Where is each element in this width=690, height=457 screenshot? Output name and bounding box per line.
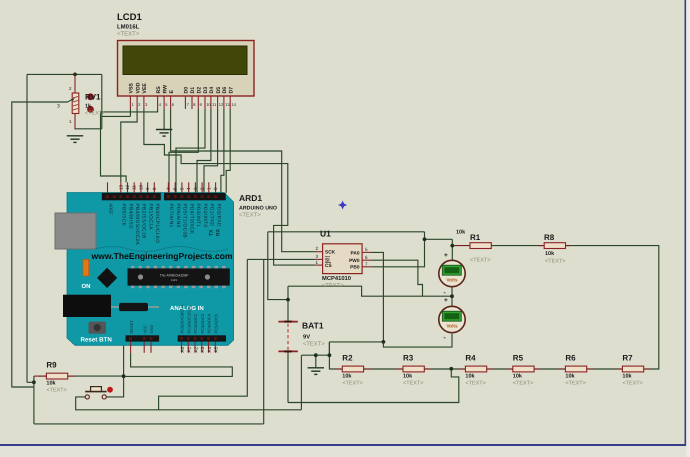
- svg-text:R9: R9: [46, 361, 57, 370]
- window border right (navy): [684, 0, 686, 446]
- wire R3 to R4: [423, 368, 465, 370]
- Arduino USB connector: [55, 213, 96, 249]
- wire LCD D6 to Arduino header: [221, 109, 224, 193]
- svg-text:VDD: VDD: [135, 82, 141, 93]
- wire bottom rail 2: [34, 423, 264, 425]
- svg-text:D1: D1: [190, 87, 196, 94]
- Arduino silkscreen bracket: [95, 247, 228, 252]
- LCD1 body: [118, 41, 255, 97]
- svg-text:1121: 1121: [171, 278, 178, 282]
- svg-text:10k: 10k: [545, 251, 555, 257]
- svg-text:11: 11: [132, 185, 137, 190]
- svg-text:PB1/OC1A: PB1/OC1A: [147, 204, 153, 231]
- wire LCD RS to Arduino pin 12: [101, 109, 158, 182]
- svg-text:<TEXT>: <TEXT>: [465, 380, 485, 386]
- LCD1 pin stubs: [130, 96, 230, 109]
- svg-text:RS: RS: [156, 86, 162, 94]
- svg-text:3: 3: [57, 104, 60, 110]
- svg-text:R3: R3: [403, 353, 414, 362]
- svg-text:<TEXT>: <TEXT>: [565, 380, 585, 386]
- wire GND top rail horizontal: [27, 73, 102, 75]
- wire down to voltmeter VM1 top: [451, 239, 453, 260]
- wire VSS riser vertical: [101, 74, 103, 128]
- RV1 wiper arrow: [68, 98, 75, 102]
- junction PB0 node: [423, 237, 427, 241]
- svg-text:10k: 10k: [403, 374, 413, 380]
- wire LCD D7 to Arduino header: [226, 109, 230, 193]
- U1 pin numbers: [316, 246, 369, 266]
- junction PA0 node: [382, 340, 386, 344]
- wire left GND rail vertical: [26, 74, 28, 382]
- svg-text:9V: 9V: [303, 334, 310, 341]
- svg-text:<TEXT>: <TEXT>: [85, 111, 105, 117]
- potentiometer RV1: [72, 93, 79, 114]
- wire U1 PB0 riser to junction: [372, 232, 425, 267]
- svg-text:10k: 10k: [622, 374, 632, 380]
- wire Arduino RESET loop to button node: [124, 353, 233, 377]
- svg-text:<TEXT>: <TEXT>: [239, 213, 261, 219]
- wire BAT minus stub down: [287, 351, 289, 402]
- svg-text:PD7/AIN1: PD7/AIN1: [168, 204, 174, 228]
- svg-text:3: 3: [316, 254, 319, 259]
- svg-text:10k: 10k: [456, 230, 466, 236]
- wire R1 left lead: [452, 245, 470, 247]
- wire LCD D4 to Arduino pin 3: [197, 109, 211, 193]
- svg-text:0: 0: [213, 187, 218, 190]
- wire R1 to R8: [491, 245, 544, 247]
- svg-text:Volts: Volts: [446, 277, 458, 283]
- wire RV1 ground link: [76, 128, 102, 130]
- wire LCD VDD to Arduino pin 13: [121, 109, 137, 182]
- svg-text:PD3/INT1: PD3/INT1: [195, 204, 201, 228]
- VM2 plus minus marks: [444, 297, 449, 342]
- resistor R2: [335, 353, 371, 386]
- svg-text:PB5/SCK: PB5/SCK: [121, 204, 127, 227]
- wire RV1 pin3 to left bottom rail: [12, 102, 68, 387]
- svg-text:R6: R6: [565, 353, 576, 362]
- svg-text:A5: A5: [214, 346, 219, 352]
- svg-text:13: 13: [225, 102, 230, 107]
- svg-text:R4: R4: [465, 353, 476, 362]
- voltmeter VM2: [439, 306, 465, 332]
- svg-text:7: 7: [166, 187, 171, 190]
- Arduino analog pin labels: [180, 304, 219, 333]
- junction R9 right node: [122, 374, 126, 378]
- svg-text:+: +: [444, 252, 448, 259]
- svg-text:RESET: RESET: [129, 320, 134, 334]
- svg-text:TX: TX: [209, 229, 215, 236]
- svg-text:6: 6: [173, 187, 178, 190]
- svg-text:ON: ON: [82, 283, 91, 290]
- svg-text:<TEXT>: <TEXT>: [342, 380, 362, 386]
- Arduino top header left: [102, 193, 161, 200]
- wire LCD RW to ground: [163, 109, 165, 130]
- wire left rail to R9 node: [27, 381, 34, 383]
- Arduino top pin stubs: [108, 182, 216, 193]
- svg-text:7: 7: [365, 261, 368, 266]
- wire ground stub near BAT: [315, 355, 317, 367]
- junction ground node: [314, 353, 318, 357]
- svg-text:PC5/ADC5: PC5/ADC5: [214, 313, 219, 333]
- svg-text:LCD1: LCD1: [117, 12, 143, 23]
- svg-text:3: 3: [193, 187, 198, 190]
- svg-text:PD4/T0/XCK: PD4/T0/XCK: [189, 204, 195, 235]
- wire VM1 bottom to VM2 top: [451, 287, 453, 307]
- svg-text:<TEXT>: <TEXT>: [46, 387, 66, 393]
- svg-text:PC4/ADC4: PC4/ADC4: [207, 313, 212, 333]
- svg-text:10: 10: [206, 102, 211, 107]
- battery BAT1: [278, 322, 297, 352]
- wire R3-R4 node branch to BAT minus rail: [288, 369, 459, 403]
- svg-text:10k: 10k: [465, 374, 475, 380]
- wire R9 left lead: [34, 375, 47, 377]
- svg-text:10k: 10k: [513, 374, 523, 380]
- svg-text:R8: R8: [544, 233, 555, 242]
- svg-text:PD6/AIN0: PD6/AIN0: [175, 204, 181, 228]
- svg-text:2: 2: [200, 187, 205, 190]
- svg-text:PD5/T1/OC0B: PD5/T1/OC0B: [182, 204, 188, 239]
- blue origin cursor: [338, 201, 347, 210]
- svg-text:D4: D4: [209, 87, 215, 94]
- svg-text:LM016L: LM016L: [117, 24, 140, 31]
- svg-text:5: 5: [179, 187, 184, 190]
- junction left rail / R9 drop: [32, 380, 36, 384]
- resistor R9: [39, 361, 75, 394]
- svg-text:PA0: PA0: [351, 250, 360, 256]
- svg-text:5: 5: [365, 247, 368, 252]
- wire PA0 net horizontal: [329, 341, 383, 343]
- svg-text:VSS: VSS: [129, 83, 135, 94]
- svg-text:6: 6: [365, 255, 368, 260]
- svg-text:R7: R7: [622, 353, 633, 362]
- svg-text:www.TheEngineeringProjects.com: www.TheEngineeringProjects.com: [90, 251, 232, 261]
- svg-text:PC3/ADC3: PC3/ADC3: [200, 313, 205, 333]
- svg-text:D2: D2: [197, 87, 203, 94]
- ground below RV1: [67, 136, 83, 143]
- wire R8 right down to R7 right: [566, 246, 659, 369]
- svg-text:<TEXT>: <TEXT>: [117, 31, 140, 38]
- junction R2 riser node: [328, 353, 332, 357]
- svg-text:14: 14: [231, 102, 236, 107]
- svg-text:E: E: [169, 90, 175, 94]
- wire R2 to R3: [362, 368, 403, 370]
- ground below LCD RW: [156, 130, 172, 137]
- svg-text:12: 12: [219, 102, 224, 107]
- wire LCD E wrap to U1 SCK: [171, 109, 315, 252]
- svg-text:1: 1: [206, 187, 211, 190]
- svg-text:ARDUINO UNO: ARDUINO UNO: [239, 206, 277, 212]
- Arduino power jack: [63, 295, 111, 317]
- svg-text:<TEXT>: <TEXT>: [403, 380, 423, 386]
- svg-text:PD1/TXD: PD1/TXD: [209, 204, 215, 227]
- ground near BAT1: [308, 368, 324, 375]
- wire VSS horizontal to LCD pin1: [102, 115, 131, 117]
- svg-text:SCK: SCK: [325, 250, 336, 256]
- svg-text:<TEXT>: <TEXT>: [322, 283, 344, 289]
- wire R4 to R5: [487, 368, 513, 370]
- svg-text:1k: 1k: [85, 104, 92, 110]
- wire long horizontal BAT+ net top: [268, 231, 425, 233]
- svg-text:PC2/ADC2: PC2/ADC2: [193, 313, 198, 333]
- svg-text:VCC: VCC: [142, 325, 147, 334]
- wire R6 to R7: [587, 368, 623, 370]
- wire riser to BAT plus: [268, 232, 288, 300]
- window right strip: [687, 0, 690, 457]
- junction voltmeter mid node: [450, 294, 454, 298]
- window border bottom (navy): [0, 444, 686, 446]
- junction R3-R4 node: [449, 367, 453, 371]
- svg-text:PB4/MISO: PB4/MISO: [127, 204, 133, 229]
- svg-text:1: 1: [316, 260, 319, 265]
- resistor R7: [615, 353, 651, 386]
- svg-text:RW: RW: [162, 85, 168, 94]
- svg-text:PB0: PB0: [350, 265, 360, 271]
- svg-text:2: 2: [316, 246, 319, 251]
- svg-text:MCP41010: MCP41010: [322, 275, 351, 282]
- svg-text:<TEXT>: <TEXT>: [622, 380, 642, 386]
- RV1 origin markers: [87, 93, 94, 112]
- wire mid riser to bottom rail 2: [263, 259, 265, 424]
- svg-text:RV1: RV1: [85, 93, 101, 102]
- Arduino power LED (orange): [83, 259, 89, 276]
- wire LCD VSS stub drop: [129, 109, 131, 116]
- svg-text:13: 13: [118, 184, 123, 190]
- svg-text:10k: 10k: [565, 374, 575, 380]
- svg-text:10: 10: [138, 184, 143, 190]
- svg-text:GND: GND: [149, 325, 154, 334]
- Arduino diode component: [111, 303, 159, 311]
- Arduino ATmega IC chip: [128, 266, 230, 288]
- window bottom strip: [0, 447, 690, 457]
- Arduino header pin dots: [106, 195, 217, 198]
- Arduino top pin function labels: [121, 204, 222, 246]
- junction R1 node: [450, 244, 454, 248]
- voltmeter VM1: [439, 260, 465, 286]
- svg-text:4: 4: [186, 187, 191, 190]
- wire R9 right to node: [68, 375, 124, 377]
- LCD1 pin labels: [129, 82, 235, 93]
- svg-text:PB2/SS/OC1B: PB2/SS/OC1B: [141, 204, 147, 239]
- junction RV1 top: [73, 73, 77, 77]
- svg-text:Reset BTN: Reset BTN: [81, 337, 113, 344]
- svg-text:D7: D7: [228, 87, 234, 94]
- svg-text:D6: D6: [222, 87, 228, 94]
- Arduino bottom header pin dots: [129, 337, 217, 340]
- wire ground node horizontal: [302, 354, 330, 356]
- resistor R4: [458, 353, 494, 386]
- svg-text:R2: R2: [342, 353, 353, 362]
- svg-text:PD2/INT0: PD2/INT0: [202, 204, 208, 228]
- svg-text:Volts: Volts: [446, 323, 458, 329]
- svg-text:12: 12: [125, 184, 130, 190]
- svg-text:A4: A4: [207, 346, 212, 352]
- resistor R6: [558, 353, 594, 386]
- U1 right pin stubs: [362, 252, 372, 266]
- wire SI net down to bottom rail: [159, 259, 248, 409]
- svg-text:AREF: AREF: [109, 204, 114, 216]
- svg-text:A0: A0: [180, 346, 185, 352]
- LCD1 screen: [123, 46, 247, 75]
- svg-text:A1: A1: [187, 346, 192, 352]
- svg-text:R5: R5: [513, 353, 524, 362]
- svg-text:+: +: [444, 297, 448, 304]
- wire R5 to R6: [534, 368, 566, 370]
- VM1 plus minus marks: [444, 252, 449, 297]
- Arduino bottom pin stubs: [131, 342, 216, 353]
- wire node link: [328, 342, 330, 355]
- RV1 bottom stub (pin 1): [74, 114, 76, 130]
- wire LCD VEE staircase wrap to U1 CS: [144, 109, 315, 265]
- svg-text:10k: 10k: [342, 374, 352, 380]
- svg-text:U1: U1: [320, 229, 331, 239]
- wire R9 left drop: [33, 376, 35, 424]
- wire U1 SI horizontal: [247, 258, 315, 260]
- wire node down to button right terminal: [104, 376, 123, 397]
- svg-text:-: -: [444, 290, 446, 297]
- svg-text:<TEXT>: <TEXT>: [303, 342, 325, 348]
- svg-text:A3: A3: [200, 346, 205, 352]
- svg-text:-: -: [444, 335, 446, 342]
- svg-text:8: 8: [152, 187, 157, 190]
- svg-text:<TEXT>: <TEXT>: [513, 380, 533, 386]
- resistor R3: [396, 353, 432, 386]
- svg-text:A2: A2: [193, 346, 198, 352]
- wire U1 PA0 down: [372, 252, 384, 342]
- wire BAT plus stub: [287, 286, 289, 321]
- svg-text:D0: D0: [184, 87, 190, 94]
- Arduino A0-A5 labels below: [180, 346, 219, 352]
- svg-text:PW0: PW0: [349, 258, 360, 264]
- svg-text:The ATMEGA328P: The ATMEGA328P: [160, 274, 189, 278]
- svg-text:RX: RX: [216, 228, 222, 236]
- svg-text:<TEXT>: <TEXT>: [470, 258, 490, 264]
- svg-text:<TEXT>: <TEXT>: [545, 259, 565, 265]
- Arduino UNO board ARD1: [67, 193, 234, 346]
- Arduino bottom-left pin labels: [129, 320, 154, 334]
- svg-text:ARD1: ARD1: [239, 193, 262, 203]
- svg-text:VEE: VEE: [142, 83, 148, 94]
- svg-text:D5: D5: [216, 87, 222, 94]
- svg-text:PC0/ADC0/SDA: PC0/ADC0/SDA: [180, 304, 185, 333]
- wire BAT plus Z to voltmeter node: [288, 286, 452, 296]
- push button: [85, 387, 113, 399]
- U1 left pin stubs: [315, 252, 323, 265]
- U1 pin names: [325, 250, 360, 271]
- svg-text:BAT1: BAT1: [302, 321, 324, 331]
- svg-text:10k: 10k: [46, 381, 56, 387]
- svg-text:PD0/RXD: PD0/RXD: [215, 204, 221, 227]
- Arduino top pin numbers: [118, 184, 218, 190]
- svg-text:CS: CS: [325, 263, 332, 269]
- resistor R1: [456, 230, 491, 264]
- svg-text:PB3/MOSI/OC2A: PB3/MOSI/OC2A: [134, 204, 140, 246]
- RV1 top stub (pin 2): [74, 74, 76, 93]
- svg-text:PB0/ICP1/CLKO: PB0/ICP1/CLKO: [154, 204, 160, 244]
- svg-text:PC1/ADC1/SCL: PC1/ADC1/SCL: [187, 304, 192, 333]
- resistor R8: [538, 233, 570, 265]
- junction BAT plus: [286, 298, 290, 302]
- wire LCD D3 to Arduino pin 6: [176, 109, 205, 193]
- wire LCD D2 to Arduino pin 7: [169, 109, 198, 193]
- wire jog to VM2 bottom: [383, 334, 452, 347]
- Arduino top header right: [164, 193, 226, 200]
- wire button left terminal to bottom rail 1: [76, 397, 302, 410]
- LCD1 pin numbers: [132, 102, 237, 107]
- Arduino black diamond component: [97, 268, 117, 288]
- Arduino reset button: [89, 322, 107, 334]
- wire junction to R1 node: [425, 238, 453, 240]
- wire LCD D5 to Arduino pin 2: [204, 109, 218, 193]
- wire U1 PW0 staircase to voltmeter node: [372, 260, 423, 296]
- Arduino bottom header left: [126, 335, 160, 341]
- wire down to R2 left: [329, 342, 342, 369]
- Arduino bottom header right: [178, 335, 226, 341]
- Arduino TX RX labels: [209, 228, 222, 236]
- resistor R5: [505, 353, 541, 386]
- svg-text:9: 9: [145, 187, 150, 190]
- svg-text:R1: R1: [470, 233, 481, 242]
- wire Arduino header drop to button node: [123, 342, 125, 377]
- wire rail1 riser to ground node rail: [300, 355, 302, 410]
